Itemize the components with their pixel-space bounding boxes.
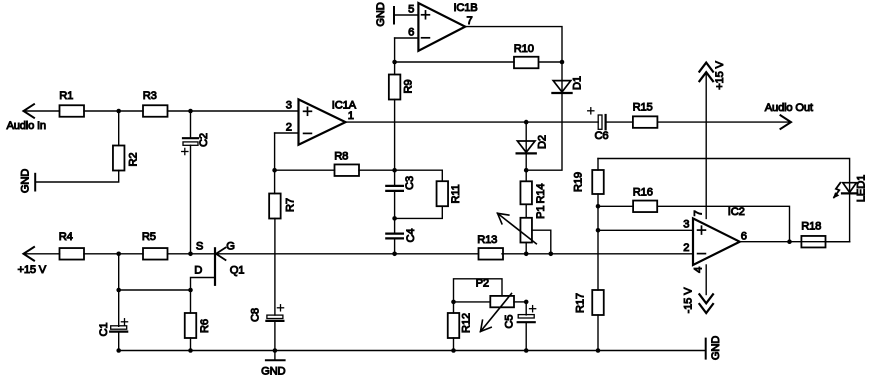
- svg-text:R6: R6: [199, 319, 211, 333]
- svg-text:4: 4: [692, 267, 704, 273]
- svg-text:C6: C6: [595, 130, 609, 142]
- svg-text:3: 3: [286, 99, 292, 111]
- svg-text:Q1: Q1: [230, 265, 245, 277]
- svg-text:-15 V: -15 V: [683, 287, 695, 313]
- svg-text:R18: R18: [801, 220, 821, 232]
- svg-text:D1: D1: [572, 76, 584, 90]
- svg-text:C3: C3: [404, 176, 416, 190]
- svg-text:R9: R9: [402, 80, 414, 94]
- svg-text:R10: R10: [514, 43, 534, 55]
- svg-text:R12: R12: [461, 313, 473, 333]
- svg-text:LED1: LED1: [856, 175, 868, 202]
- svg-text:C8: C8: [249, 308, 261, 322]
- svg-text:6: 6: [741, 231, 747, 243]
- svg-text:GND: GND: [375, 2, 387, 26]
- svg-text:C1: C1: [98, 323, 110, 337]
- svg-text:C4: C4: [405, 229, 417, 243]
- svg-text:R19: R19: [573, 172, 585, 192]
- svg-text:R1: R1: [59, 90, 73, 102]
- svg-text:R14: R14: [535, 184, 547, 204]
- svg-text:R15: R15: [633, 102, 653, 114]
- svg-text:R16: R16: [633, 186, 653, 198]
- svg-text:Audio In: Audio In: [7, 120, 46, 132]
- svg-text:D2: D2: [536, 135, 548, 149]
- svg-text:R5: R5: [142, 231, 156, 243]
- svg-text:IC1B: IC1B: [454, 2, 478, 14]
- svg-text:C2: C2: [198, 133, 210, 147]
- svg-text:GND: GND: [19, 169, 31, 193]
- svg-text:R8: R8: [334, 150, 348, 162]
- svg-text:R17: R17: [575, 293, 587, 313]
- svg-text:R4: R4: [59, 231, 73, 243]
- svg-text:7: 7: [692, 210, 704, 216]
- svg-text:P1: P1: [535, 206, 547, 219]
- svg-text:+15 V: +15 V: [714, 60, 726, 89]
- svg-text:R13: R13: [477, 234, 497, 246]
- svg-text:7: 7: [467, 15, 473, 27]
- svg-text:3: 3: [683, 219, 689, 231]
- svg-text:IC2: IC2: [728, 206, 745, 218]
- svg-text:1: 1: [348, 110, 354, 122]
- svg-text:G: G: [226, 241, 235, 253]
- svg-text:GND: GND: [710, 336, 722, 360]
- svg-text:+15 V: +15 V: [18, 264, 47, 276]
- svg-text:5: 5: [408, 4, 414, 16]
- svg-text:R3: R3: [143, 90, 157, 102]
- svg-text:Audio Out: Audio Out: [765, 102, 814, 114]
- svg-text:D: D: [194, 265, 202, 277]
- svg-text:6: 6: [408, 27, 414, 39]
- svg-text:GND: GND: [261, 366, 285, 378]
- svg-text:P2: P2: [476, 278, 489, 290]
- svg-text:R7: R7: [285, 198, 297, 212]
- svg-text:C5: C5: [504, 315, 516, 329]
- svg-text:R11: R11: [450, 184, 462, 203]
- svg-text:2: 2: [286, 122, 292, 134]
- svg-text:S: S: [196, 241, 203, 253]
- svg-text:2: 2: [683, 242, 689, 254]
- svg-text:R2: R2: [127, 153, 139, 167]
